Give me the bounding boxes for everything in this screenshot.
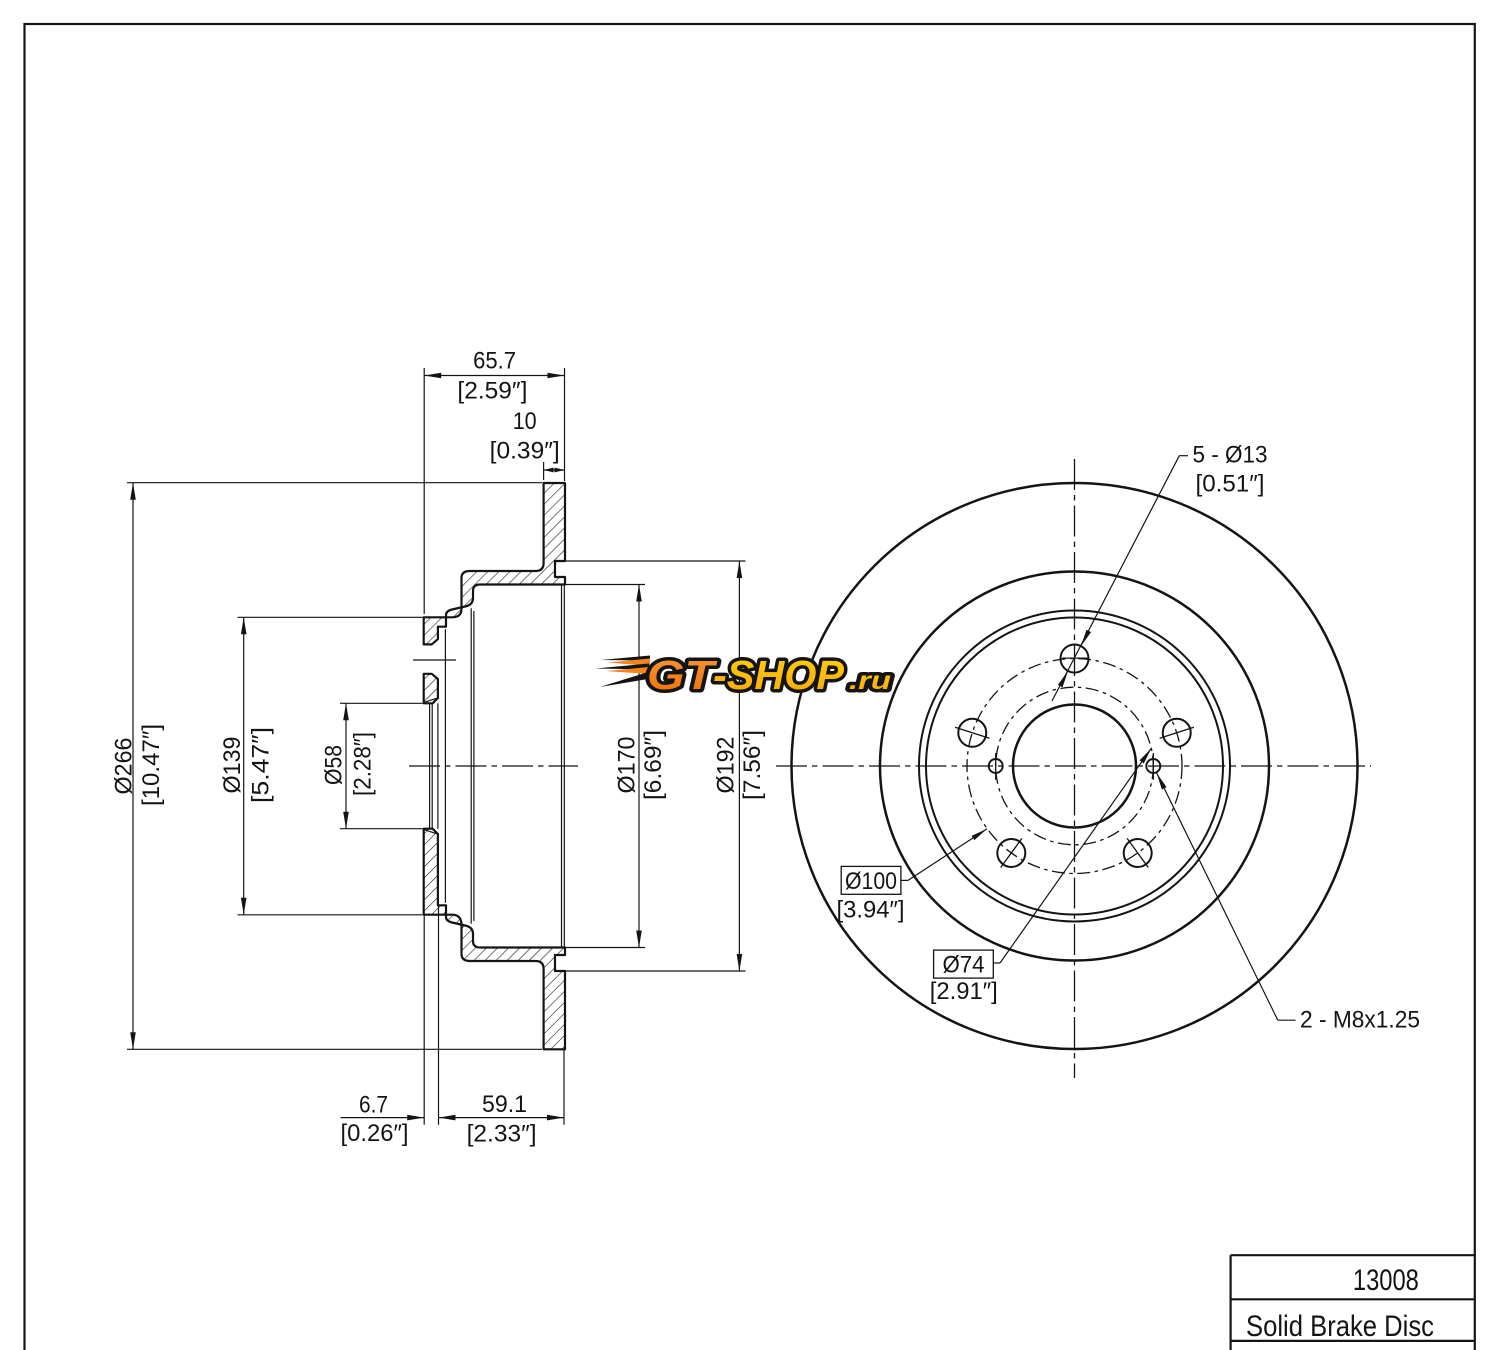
svg-text:[2.91″]: [2.91″]: [930, 978, 998, 1005]
svg-text:Ø139: Ø139: [219, 737, 246, 794]
svg-text:Ø266: Ø266: [111, 738, 138, 795]
svg-text:Ø58: Ø58: [321, 745, 348, 785]
svg-text:59.1: 59.1: [482, 1091, 527, 1118]
svg-text:GT: GT: [647, 652, 717, 698]
svg-text:[0.51″]: [0.51″]: [1196, 471, 1265, 498]
svg-text:-SHOP: -SHOP: [713, 652, 845, 698]
svg-text:5 - Ø13: 5 - Ø13: [1193, 442, 1268, 469]
svg-text:[3.94″]: [3.94″]: [837, 896, 905, 923]
svg-text:Solid Brake Disc: Solid Brake Disc: [1246, 1310, 1434, 1343]
svg-text:[5.47″]: [5.47″]: [248, 727, 275, 803]
svg-text:[7.56″]: [7.56″]: [739, 730, 766, 800]
svg-text:Ø74: Ø74: [943, 952, 985, 979]
svg-text:[10.47″]: [10.47″]: [138, 724, 165, 806]
svg-text:[2.28″]: [2.28″]: [350, 732, 377, 796]
svg-text:.ru: .ru: [849, 667, 891, 695]
svg-text:Ø170: Ø170: [614, 737, 641, 794]
svg-text:6.7: 6.7: [359, 1092, 388, 1119]
svg-text:Ø100: Ø100: [845, 868, 897, 895]
svg-text:[2.33″]: [2.33″]: [467, 1121, 537, 1148]
svg-text:13008: 13008: [1353, 1264, 1419, 1297]
svg-text:[0.39″]: [0.39″]: [490, 438, 560, 465]
svg-text:[6.69″]: [6.69″]: [640, 730, 667, 800]
svg-text:65.7: 65.7: [473, 348, 516, 375]
svg-text:[0.26″]: [0.26″]: [341, 1120, 409, 1147]
svg-text:2 - M8x1.25: 2 - M8x1.25: [1300, 1007, 1420, 1034]
svg-text:Ø192: Ø192: [713, 737, 740, 794]
svg-text:10: 10: [513, 408, 537, 435]
svg-text:[2.59″]: [2.59″]: [457, 378, 527, 405]
